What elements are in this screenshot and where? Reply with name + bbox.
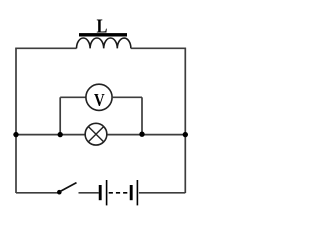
battery dashed link bbox=[109, 192, 130, 194]
wire voltmeter branch top-right bbox=[112, 96, 142, 98]
wire right vertical bbox=[184, 48, 186, 193]
wire middle branch left bbox=[16, 134, 85, 136]
node junction inner-left bbox=[58, 132, 63, 137]
wire voltmeter branch top-left bbox=[60, 96, 86, 98]
wire top-right segment bbox=[131, 47, 186, 49]
wire battery to right bbox=[139, 192, 185, 194]
svg-text:V: V bbox=[94, 91, 105, 110]
wire voltmeter branch right vertical bbox=[141, 97, 143, 134]
wire voltmeter branch left vertical bbox=[59, 97, 61, 134]
inductor core bar bbox=[79, 33, 127, 36]
svg-text:L: L bbox=[97, 15, 108, 37]
node junction left bbox=[13, 132, 18, 137]
node junction right bbox=[183, 132, 188, 137]
lamp bbox=[85, 123, 107, 145]
battery cell 2 bbox=[131, 180, 137, 205]
wire switch to battery bbox=[79, 192, 99, 194]
battery cell 1 bbox=[100, 180, 106, 205]
node junction inner-right bbox=[139, 132, 144, 137]
switch S bbox=[57, 183, 77, 195]
voltmeter V bbox=[86, 84, 112, 110]
wire top-left segment bbox=[15, 47, 76, 49]
wire bottom-left segment bbox=[16, 192, 58, 194]
wire middle branch right bbox=[107, 134, 185, 136]
inductor L coil bbox=[77, 38, 131, 48]
wire left vertical bbox=[15, 48, 17, 193]
